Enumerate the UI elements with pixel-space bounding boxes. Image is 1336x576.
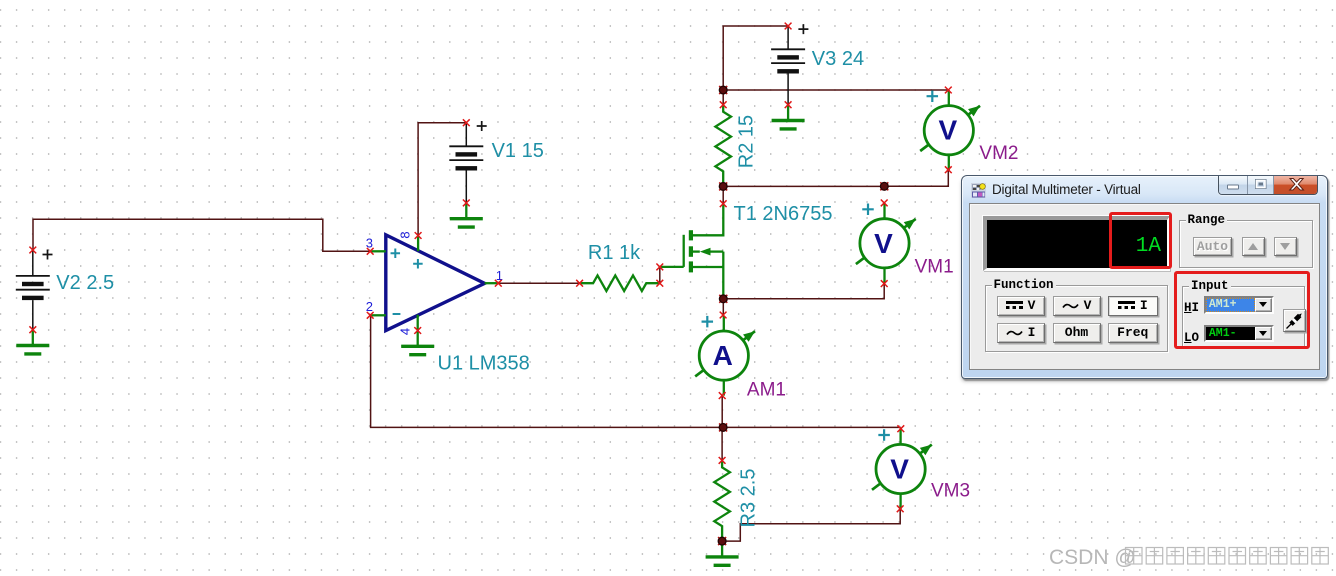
- Input group box: [1182, 286, 1305, 347]
- transistor T1 source lead: [693, 266, 723, 268]
- label V3 24: [812, 48, 864, 70]
- pin marker R3 top: [719, 457, 726, 464]
- wire R2 bottom to VM1 node: [723, 185, 884, 187]
- meter VM1 symbol: [856, 203, 916, 283]
- pin marker R1 right: [656, 280, 663, 287]
- HI label: [1184, 301, 1204, 313]
- pin marker U1 pin3: [367, 248, 374, 255]
- svg-text:R2 15: R2 15: [736, 115, 758, 168]
- AC V button: [1053, 296, 1101, 316]
- Function group box: [985, 285, 1168, 353]
- meter VM3 symbol: [872, 429, 932, 509]
- svg-text:VM2: VM2: [979, 143, 1018, 164]
- node junction T1 source/VM1-/AM1: [719, 295, 727, 303]
- wire feedback node to VM3+: [723, 426, 901, 428]
- pin marker VM2+: [945, 87, 952, 94]
- wire source node to AM1+: [722, 299, 724, 315]
- wire VM3- to R3 bottom: [722, 509, 900, 541]
- HI combo box: [1204, 296, 1274, 314]
- red annotation rectangle around LCD reading: [1109, 212, 1173, 269]
- wire R1 to T1 gate: [659, 267, 661, 283]
- DC I button (selected): [1108, 296, 1158, 316]
- svg-text:R3 2.5: R3 2.5: [738, 469, 760, 528]
- svg-text:4: 4: [398, 328, 413, 335]
- pin marker R2 top: [720, 101, 727, 108]
- AC I button: [997, 323, 1045, 344]
- label AM1: [747, 380, 786, 401]
- battery V3 plus mark: [798, 24, 808, 34]
- battery V3 plates: [771, 49, 805, 73]
- battery V3 pins: [787, 26, 789, 105]
- node junction AM1-/feedback/R3/VM3: [719, 423, 727, 431]
- Freq button: [1108, 323, 1158, 344]
- ground at R3: [706, 541, 739, 565]
- label U1 LM358: [438, 353, 530, 375]
- LCD reading 1A: [1105, 235, 1161, 257]
- pin marker T1 gate: [656, 264, 663, 271]
- wire node to T1 drain pin: [722, 186, 724, 203]
- pin marker VM3+: [897, 425, 904, 432]
- resistor R1: [580, 275, 660, 291]
- ground at V3: [772, 105, 805, 129]
- wire V3+ to R2 top: [723, 26, 788, 105]
- wire feedback node to op-amp pin2: [371, 315, 723, 427]
- watermark CSDN: [1049, 546, 1136, 569]
- meter AM1 symbol: [695, 316, 755, 396]
- pin marker V3-: [785, 101, 792, 108]
- pin number 2: [366, 299, 373, 314]
- transistor T1 body arrow: [693, 248, 723, 256]
- dialog client area: [969, 203, 1320, 370]
- svg-text:AM1: AM1: [747, 380, 786, 401]
- battery V1 plates: [449, 146, 483, 170]
- transistor T1 channel pads: [689, 230, 693, 272]
- wire feedback node to R3 top: [721, 427, 723, 460]
- op-amp U1 pin4 lead: [417, 315, 419, 331]
- battery V2 pins: [32, 250, 34, 330]
- wire VM1- to T1 source node: [723, 284, 884, 299]
- Digital Multimeter dialog window: [961, 175, 1328, 380]
- transistor T1 gate lead: [660, 266, 684, 268]
- pin marker R1 left: [576, 280, 583, 287]
- label VM2: [979, 143, 1018, 164]
- pin marker V2-: [29, 326, 36, 333]
- pin marker V2+: [29, 247, 36, 254]
- LO label: [1184, 331, 1204, 343]
- node junction R2/T1 drain: [719, 182, 727, 190]
- Auto button (disabled): [1193, 237, 1232, 257]
- op-amp U1 input polarity marks: [391, 248, 423, 314]
- wire V1+ to op-amp pin8: [418, 123, 466, 236]
- ground at V1: [450, 203, 483, 227]
- svg-text:U1 LM358: U1 LM358: [438, 353, 530, 375]
- op-amp U1 pin2 lead: [370, 314, 386, 316]
- wire V2+ to op-amp pin3: [33, 219, 370, 251]
- LO combo box: [1204, 325, 1274, 343]
- svg-text:A: A: [713, 340, 733, 371]
- pin number 3: [366, 235, 373, 250]
- pin number 8: [398, 231, 413, 238]
- pin marker V1+: [463, 119, 470, 126]
- battery V1 pins: [465, 123, 467, 203]
- pin marker U1 pin2: [367, 312, 374, 319]
- svg-text:R1 1k: R1 1k: [588, 242, 641, 264]
- svg-text:VM3: VM3: [931, 481, 970, 502]
- LCD display bezel: [983, 216, 1170, 272]
- wire VM2- to node T1 drain: [884, 170, 948, 187]
- ground at op-amp pin4: [401, 331, 434, 355]
- label VM3: [931, 481, 970, 502]
- watermark CJK glyph placeholders: [1126, 548, 1329, 565]
- svg-text:VM1: VM1: [915, 257, 954, 278]
- label VM1: [915, 257, 954, 278]
- op-amp U1 pin8 lead: [417, 236, 419, 252]
- pin marker U1 pin4: [414, 327, 421, 334]
- transistor T1 source-body vertical: [722, 252, 724, 299]
- caption buttons: minimize, maximize, close: [1218, 176, 1319, 195]
- wire op-amp output to R1: [498, 282, 579, 284]
- ground at V2: [16, 330, 49, 354]
- battery V2 plus mark: [43, 250, 53, 260]
- battery V1 plus mark: [477, 121, 487, 131]
- pin number 1: [496, 268, 503, 283]
- op-amp U1 output lead pin1: [485, 282, 499, 284]
- pin marker VM3-: [897, 505, 904, 512]
- svg-text:V: V: [890, 454, 909, 485]
- pin number 4: [398, 328, 413, 335]
- pin marker U1 output: [495, 280, 502, 287]
- DC V button: [997, 296, 1045, 316]
- label V1 15: [492, 140, 544, 162]
- probe button: [1283, 309, 1306, 332]
- title bar icon: [971, 183, 986, 198]
- label R3 2.5: [738, 469, 760, 528]
- pin marker V1-: [463, 200, 470, 207]
- battery V2 plates: [16, 276, 50, 300]
- svg-text:8: 8: [398, 231, 413, 238]
- pin marker VM1-: [881, 280, 888, 287]
- label T1 2N6755: [734, 203, 833, 225]
- svg-text:V3 24: V3 24: [812, 48, 864, 70]
- wire node drain-supply to VM2+: [723, 89, 948, 91]
- pin marker U1 pin8: [415, 232, 422, 239]
- pin marker VM1+: [881, 200, 888, 207]
- pin marker AM1+: [720, 312, 727, 319]
- label R2 15: [736, 115, 758, 168]
- node junction VM1+/VM2-: [880, 182, 888, 190]
- label R1 1k: [588, 242, 641, 264]
- svg-text:V1 15: V1 15: [492, 140, 544, 162]
- transistor T1 gate bar: [683, 235, 685, 267]
- pin marker AM1-: [719, 392, 726, 399]
- title text: [992, 182, 1141, 197]
- pin marker V3+: [785, 23, 792, 30]
- meter VM2 symbol: [920, 90, 980, 170]
- node junction R3/VM3-/ground: [718, 537, 726, 545]
- transistor T1 drain lead: [693, 204, 723, 236]
- resistor R3: [714, 460, 730, 541]
- svg-text:2: 2: [366, 299, 373, 314]
- wire AM1- to feedback node: [721, 396, 723, 428]
- svg-text:CSDN @: CSDN @: [1049, 546, 1136, 569]
- range down button: [1274, 237, 1297, 257]
- resistor R2: [715, 105, 731, 187]
- label V2 2.5: [56, 272, 114, 294]
- node junction V3/R2/VM2: [719, 86, 727, 94]
- Range group box: [1179, 220, 1313, 268]
- range up button: [1242, 237, 1265, 257]
- svg-text:V2 2.5: V2 2.5: [56, 272, 114, 294]
- op-amp U1 triangle: [386, 235, 485, 331]
- svg-text:T1 2N6755: T1 2N6755: [734, 203, 833, 225]
- op-amp U1 pin3 lead: [370, 250, 386, 252]
- red annotation rectangle around Input group: [1174, 271, 1310, 349]
- svg-text:V: V: [938, 115, 957, 146]
- svg-text:V: V: [874, 228, 893, 259]
- Ohm button: [1053, 323, 1101, 344]
- pin marker T1 drain: [720, 200, 727, 207]
- pin marker VM2-: [945, 166, 952, 173]
